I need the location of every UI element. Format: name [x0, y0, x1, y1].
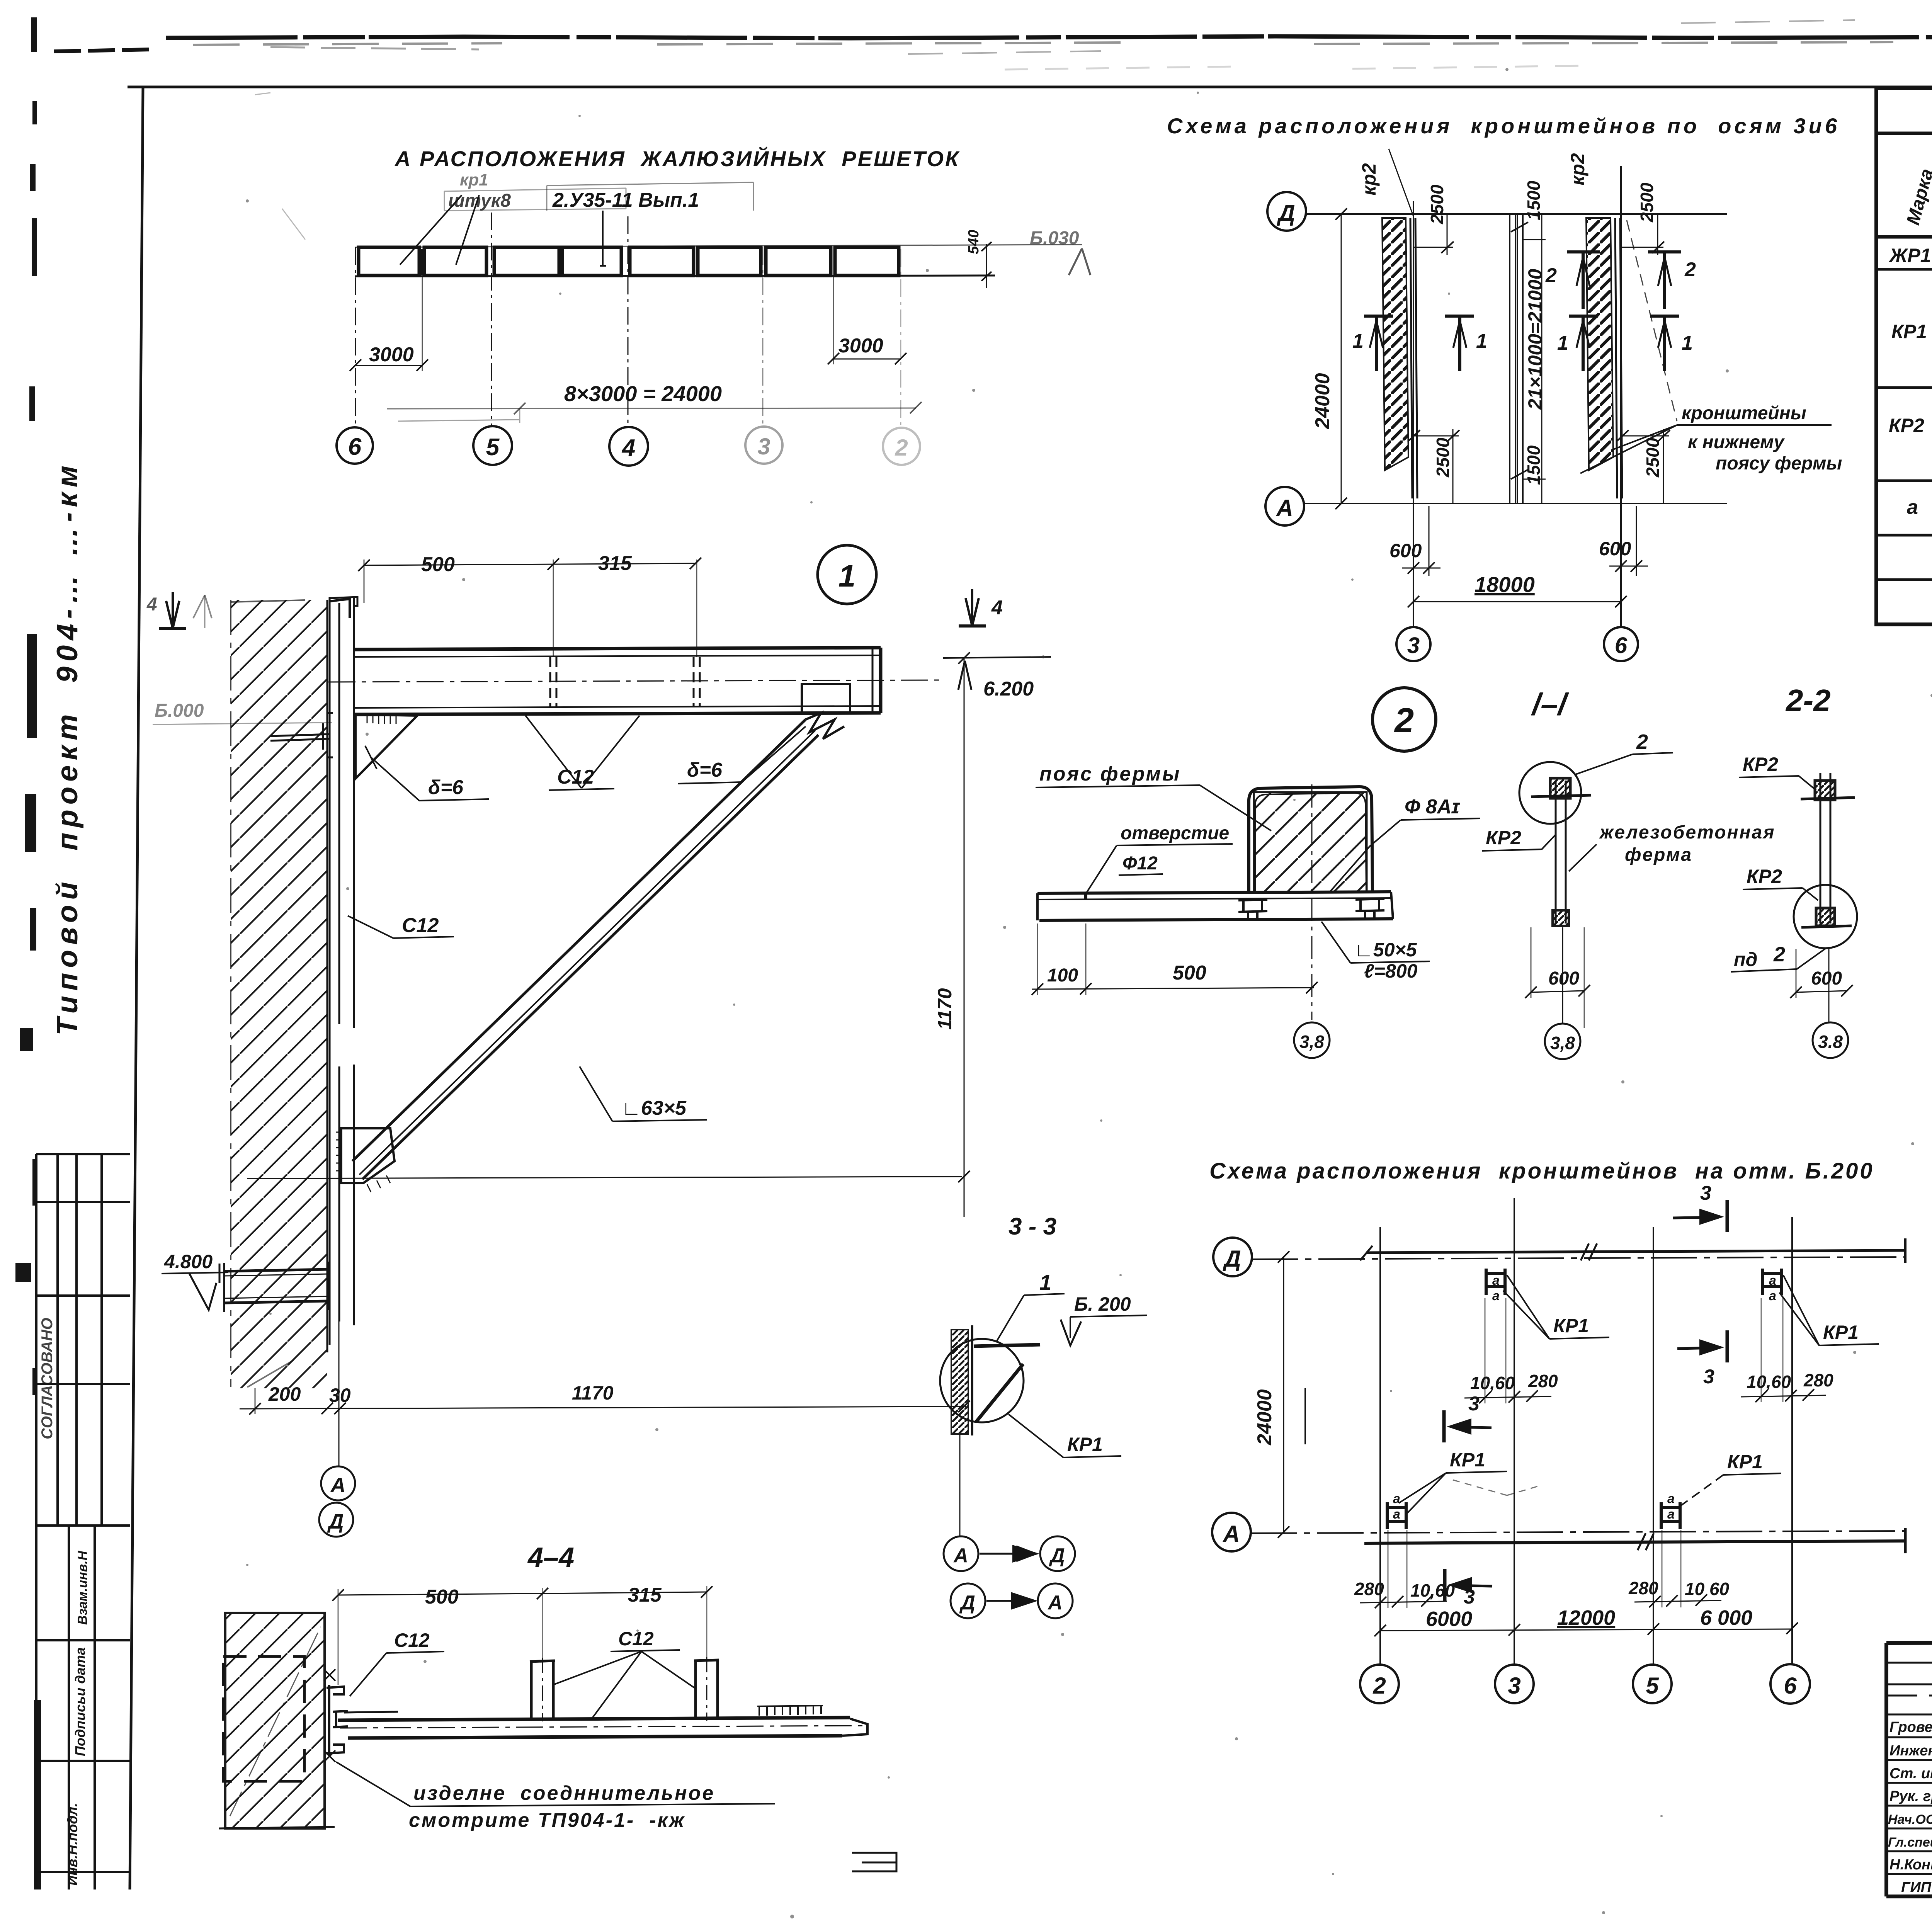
svg-text:600: 600	[1811, 968, 1842, 989]
row lines main body	[1876, 268, 1932, 271]
svg-text:Д: Д	[1276, 200, 1295, 226]
svg-text:а: а	[1667, 1507, 1675, 1522]
svg-text:а: а	[1393, 1492, 1400, 1506]
svg-text:КР2: КР2	[1889, 415, 1924, 436]
svg-text:315: 315	[598, 552, 632, 575]
stamp box 1 (soglasovano)	[36, 1154, 130, 1526]
svg-text:ℓ=800: ℓ=800	[1364, 960, 1418, 982]
hole on plate	[1084, 893, 1087, 899]
KR1 bracket symbol bottom axis5	[1661, 1502, 1680, 1529]
svg-text:3: 3	[1464, 1586, 1475, 1608]
svg-text:24000: 24000	[1253, 1389, 1276, 1446]
svg-text:КР1: КР1	[1553, 1315, 1589, 1337]
svg-text:2: 2	[1636, 730, 1648, 753]
4-4 stub channel 2	[694, 1660, 719, 1719]
svg-text:КР2: КР2	[1747, 866, 1782, 887]
svg-text:100: 100	[1047, 965, 1078, 986]
axis 3 vertical	[1514, 1198, 1515, 1664]
axis 6 dash-dot	[355, 247, 356, 427]
small leftover rect mark at frame	[852, 1853, 896, 1871]
svg-text:А: А	[1276, 495, 1293, 521]
svg-text:4.800: 4.800	[164, 1251, 213, 1272]
4-4 comb hatch right end	[757, 1706, 823, 1716]
header band top	[1876, 132, 1932, 135]
svg-text:Ф12: Ф12	[1122, 853, 1158, 874]
svg-text:3: 3	[757, 434, 770, 459]
arrow D to A	[986, 1600, 1034, 1602]
svg-text:2: 2	[1394, 701, 1414, 740]
axis circle 6	[1604, 627, 1638, 661]
middle partition double strip	[1510, 214, 1523, 503]
svg-text:Схема расположения кронштейно: Схема расположения кронштейнов по осям 3…	[1167, 114, 1840, 138]
svg-text:КР1: КР1	[1823, 1321, 1859, 1343]
top scan smear band	[166, 36, 1932, 38]
horizontal angle plate L50x5	[1037, 892, 1393, 920]
detail circle 1	[818, 545, 876, 604]
svg-text:3: 3	[1703, 1366, 1714, 1388]
4-4 ground line	[219, 1827, 335, 1828]
svg-text:10,60: 10,60	[1470, 1373, 1515, 1393]
svg-text:∟63×5: ∟63×5	[621, 1097, 687, 1119]
section mark 1 left pair	[1364, 316, 1474, 371]
3-3 wall strip hatched	[951, 1330, 968, 1434]
svg-text:600: 600	[1599, 538, 1631, 560]
svg-text:Ст. инж.: Ст. инж.	[1889, 1765, 1932, 1782]
axis circle A (detail1)	[321, 1466, 355, 1500]
svg-text:3: 3	[1508, 1673, 1520, 1699]
svg-text:А: А	[953, 1544, 968, 1567]
bottom beam line along A	[1364, 1541, 1905, 1543]
svg-text:3,8: 3,8	[1299, 1032, 1324, 1052]
axis circle 4	[609, 427, 648, 466]
section 1-1 ferma bar	[1556, 781, 1566, 923]
svg-text:2500: 2500	[1427, 184, 1447, 224]
svg-text:6: 6	[1784, 1673, 1797, 1699]
1-1 balloon circle top	[1519, 762, 1581, 824]
frame left rule	[130, 87, 143, 1889]
leader lines to first grille	[400, 195, 479, 265]
svg-text:2: 2	[1773, 943, 1785, 966]
4-4 weld crosses	[324, 1669, 335, 1762]
section mark 3 left-mid	[1452, 1427, 1492, 1428]
lintel I-beam at 4.800	[219, 1262, 328, 1312]
small angle detail at 6.000 level on wall	[270, 713, 333, 757]
wall channel C12 lower part	[339, 1065, 354, 1325]
svg-text:отверстие: отверстие	[1121, 823, 1229, 844]
header bottom	[1876, 235, 1932, 239]
svg-text:540: 540	[966, 230, 982, 254]
axis A line	[1251, 1531, 1905, 1533]
svg-text:1: 1	[1476, 330, 1487, 352]
axis circle 6	[337, 427, 373, 464]
3-3 top T bar	[974, 1345, 1040, 1346]
svg-text:2: 2	[1545, 264, 1557, 287]
svg-text:Инв.Н.подл.: Инв.Н.подл.	[65, 1803, 80, 1886]
svg-text:δ=6: δ=6	[687, 759, 723, 781]
svg-text:А: А	[330, 1474, 346, 1497]
center axis dash-dot	[1311, 784, 1313, 1020]
wall bottom hatch cut	[247, 1360, 294, 1387]
wall hatched strip	[231, 600, 327, 1388]
axis circle 6 (plan)	[1770, 1664, 1810, 1704]
nuts under plate	[1238, 899, 1384, 920]
axis circle A (plan)	[1212, 1513, 1251, 1551]
noise smudges	[1005, 66, 1584, 70]
svg-text:30: 30	[329, 1384, 351, 1406]
svg-text:1170: 1170	[934, 988, 956, 1030]
top connection vertical plate	[802, 684, 850, 713]
svg-text:КР1: КР1	[1891, 321, 1927, 342]
svg-text:С12: С12	[557, 766, 594, 788]
svg-text:изделне соедннительное: изделне соедннительное	[413, 1782, 715, 1804]
arrow A to D	[980, 1546, 1036, 1561]
svg-text:кр2: кр2	[1567, 153, 1588, 185]
axis D line	[1252, 1257, 1905, 1259]
4-4 connection bracket on wall face	[327, 1685, 348, 1756]
1-1 top KR2 square hatched	[1550, 778, 1570, 798]
svg-text:А: А	[1047, 1592, 1063, 1614]
svg-text:ЖР1: ЖР1	[1888, 245, 1931, 266]
svg-text:Д: Д	[1222, 1246, 1241, 1272]
svg-text:Н.Контр.: Н.Контр.	[1889, 1857, 1932, 1873]
axis circle 3 (faint)	[745, 427, 782, 464]
bottom dims 200 30 1170	[240, 1406, 966, 1409]
top-left edge smear	[54, 49, 151, 51]
svg-text:3: 3	[1468, 1393, 1480, 1415]
KR1 bracket symbol top axis6	[1763, 1269, 1782, 1295]
top small angle above beam at wall	[330, 599, 350, 618]
svg-text:Б.030: Б.030	[1030, 228, 1079, 248]
right brick wall strip hatched	[1586, 218, 1613, 470]
svg-text:Нач.ОСП.1: Нач.ОСП.1	[1888, 1812, 1932, 1827]
svg-text:6000: 6000	[1426, 1607, 1472, 1631]
4-4 leader from bracket to text	[336, 1762, 410, 1806]
svg-text:кр2: кр2	[1358, 163, 1380, 196]
4-4 horizontal beam plate	[338, 1712, 867, 1738]
svg-text:Инженер: Инженер	[1889, 1743, 1932, 1759]
svg-text:280: 280	[1803, 1370, 1833, 1390]
dim 1170 vertical right	[964, 658, 965, 1217]
signature rows	[1886, 1663, 1932, 1874]
svg-text:кр1: кр1	[460, 170, 488, 189]
axis 2 vertical	[1379, 1227, 1381, 1664]
dims 100 500	[1032, 988, 1314, 989]
svg-text:3.8: 3.8	[1818, 1032, 1843, 1052]
left KR2 strip double line	[1410, 218, 1412, 498]
4-4 wall block hatched	[225, 1613, 325, 1828]
svg-text:3: 3	[1700, 1182, 1711, 1204]
stamp box 2 (inv/podp)	[36, 1526, 130, 1889]
svg-text:а: а	[1769, 1273, 1776, 1288]
svg-text:2.У35-11 Вып.1: 2.У35-11 Вып.1	[552, 189, 699, 211]
diagonal brace L63x5	[352, 719, 818, 1179]
svg-text:18000: 18000	[1475, 572, 1535, 597]
svg-text:200: 200	[268, 1383, 301, 1405]
svg-text:1: 1	[1352, 330, 1364, 352]
thin top level line to elevation mark	[355, 245, 1082, 247]
svg-text:кронштейны: кронштейны	[1682, 403, 1806, 423]
big detail circle 2	[1372, 688, 1436, 751]
svg-text:500: 500	[1173, 962, 1206, 984]
beam axis dash-dot	[328, 680, 939, 682]
svg-text:6 000: 6 000	[1700, 1606, 1752, 1629]
grille rectangles row	[359, 247, 899, 276]
svg-text:Б. 200: Б. 200	[1074, 1293, 1131, 1315]
roles column texts	[1888, 1719, 1932, 1896]
svg-text:2: 2	[1372, 1673, 1386, 1699]
svg-text:∟50×5: ∟50×5	[1354, 939, 1417, 961]
axis 6 vertical	[1791, 1217, 1793, 1664]
svg-text:10,60: 10,60	[1747, 1372, 1791, 1392]
break marks on bottom beam	[1638, 1533, 1654, 1550]
svg-text:а: а	[1393, 1507, 1400, 1522]
svg-text:ГИП: ГИП	[1901, 1879, 1932, 1896]
base line under grilles	[355, 276, 995, 276]
svg-text:а: а	[1492, 1289, 1500, 1303]
axis circle 3	[1396, 627, 1430, 661]
leader from label to right strip bottom	[1580, 425, 1677, 473]
circle A right (row2)	[1038, 1583, 1073, 1618]
4-4 wall center dash-dot	[230, 1627, 321, 1816]
brace top connection zigzag	[806, 713, 844, 739]
axis circle 2 (very faint)	[883, 428, 920, 465]
svg-text:8×3000 = 24000: 8×3000 = 24000	[564, 381, 722, 406]
4-4 beam mid dash-dot	[340, 1726, 866, 1728]
svg-text:Схема расположения кронштейно: Схема расположения кронштейнов на отм. Б…	[1209, 1158, 1874, 1184]
leader to grille 3	[600, 211, 606, 266]
svg-text:пояс фермы: пояс фермы	[1039, 763, 1181, 785]
table outer border	[1876, 88, 1932, 624]
svg-text:КР1: КР1	[1067, 1434, 1103, 1455]
end bar bottom beam right	[1904, 1528, 1907, 1553]
axis line down to circles	[338, 1183, 340, 1466]
svg-text:6: 6	[348, 434, 362, 460]
3-3 diagonal brace	[976, 1364, 1023, 1422]
KR1 bracket symbol bottom axis2	[1387, 1502, 1406, 1529]
bottom dim line 6000 12000 6000	[1380, 1629, 1792, 1631]
3-3 channel line	[971, 1325, 973, 1435]
svg-text:а: а	[1907, 496, 1918, 519]
svg-text:2500: 2500	[1637, 182, 1657, 223]
gusset under beam at wall	[355, 714, 417, 779]
svg-text:КР2: КР2	[1486, 827, 1521, 849]
svg-text:Взам.инв.Н: Взам.инв.Н	[75, 1550, 90, 1625]
svg-text:6: 6	[1615, 633, 1628, 658]
svg-text:А РАСПОЛОЖЕНИЯ ЖАЛЮЗИЙНЫХ РЕ: А РАСПОЛОЖЕНИЯ ЖАЛЮЗИЙНЫХ РЕШЕТОК	[394, 146, 960, 171]
bottom gusset connection	[341, 1128, 395, 1183]
svg-text:δ=6: δ=6	[428, 776, 464, 799]
svg-text:Гроверил: Гроверил	[1889, 1719, 1932, 1735]
weld combs at bottom gusset	[336, 1132, 342, 1179]
svg-text:2500: 2500	[1643, 437, 1663, 478]
elevation 6.200 right	[943, 657, 1051, 658]
svg-text:5: 5	[486, 434, 500, 461]
axis circle 3 (plan)	[1495, 1665, 1534, 1703]
weld comb under beam left	[367, 716, 396, 724]
axis 6 vertical	[1620, 166, 1622, 628]
2-2 top tick bar	[1801, 798, 1855, 799]
end tick top beam right	[1904, 1238, 1906, 1263]
2-2 bottom hatched square	[1816, 908, 1835, 926]
section mark 1 right pair	[1569, 316, 1679, 371]
KR1 bracket symbol top axis3	[1486, 1269, 1505, 1295]
svg-text:/–/: /–/	[1531, 687, 1570, 721]
axis A horizontal	[1304, 503, 1727, 504]
wall channel C12 vertical on face	[330, 597, 357, 1345]
svg-text:КР1: КР1	[1727, 1451, 1763, 1473]
svg-text:Д: Д	[327, 1510, 344, 1533]
svg-text:4: 4	[146, 594, 157, 615]
svg-text:1: 1	[838, 559, 856, 593]
axis 5 dash-dot	[491, 213, 492, 426]
stub channel marks on beam (dashed)	[550, 657, 556, 707]
axis circle 5 (plan)	[1633, 1665, 1672, 1703]
svg-text:СОГЛАСОВАНО: СОГЛАСОВАНО	[39, 1318, 56, 1439]
svg-text:12000: 12000	[1557, 1606, 1615, 1629]
circle A left	[944, 1536, 978, 1571]
svg-text:1: 1	[1682, 332, 1693, 354]
axis 3 dash-dot (faint)	[762, 247, 764, 425]
left brick wall strip hatched	[1382, 218, 1408, 470]
frame top rule	[128, 86, 1932, 88]
svg-text:Рук. гр.: Рук. гр.	[1889, 1788, 1932, 1804]
svg-text:к нижнему: к нижнему	[1688, 432, 1785, 452]
1-1 bottom hatched square	[1553, 910, 1569, 926]
dim 24000 vertical (plan)	[1283, 1257, 1284, 1532]
axis circle 3,8 (detail2)	[1294, 1022, 1330, 1058]
section mark 4 right	[966, 589, 979, 626]
svg-text:поясу фермы: поясу фермы	[1716, 453, 1842, 474]
section mark 3 right-mid	[1677, 1348, 1719, 1349]
left paper edge black marks	[15, 17, 41, 1889]
svg-text:1170: 1170	[572, 1382, 614, 1404]
U-bolt F8AI around chord	[1249, 787, 1372, 892]
svg-text:3 - 3: 3 - 3	[1009, 1213, 1056, 1240]
svg-text:1: 1	[1039, 1270, 1051, 1294]
truss chord hatched square	[1254, 792, 1367, 892]
svg-text:2: 2	[1684, 259, 1696, 281]
svg-text:315: 315	[628, 1584, 662, 1606]
dim 24000 vertical	[1341, 214, 1342, 503]
svg-text:280: 280	[1354, 1579, 1384, 1599]
axis circle 2 (plan)	[1360, 1665, 1399, 1703]
svg-text:21×1000=21000: 21×1000=21000	[1524, 269, 1546, 410]
axis circle A	[1265, 487, 1304, 526]
svg-text:А: А	[1222, 1521, 1240, 1547]
axis circle 3,8 (1-1)	[1545, 1024, 1580, 1059]
4-4 stub channel 1	[530, 1661, 555, 1719]
svg-text:Типовой проект 904-… …-км: Типовой проект 904-… …-км	[51, 461, 84, 1036]
svg-text:железобетонная: железобетонная	[1599, 822, 1775, 843]
svg-text:3000: 3000	[369, 344, 414, 366]
top beam line along D	[1366, 1250, 1905, 1253]
3-3 balloon circle	[940, 1339, 1024, 1422]
wall top edge	[231, 600, 305, 602]
section 2-2 ferma bar	[1820, 773, 1830, 923]
axis 3 vertical	[1413, 201, 1414, 628]
4-4 dashed inner rectangle	[223, 1656, 304, 1781]
right KR2 strip double line	[1615, 218, 1617, 498]
svg-text:2: 2	[895, 435, 908, 461]
circle D right	[1040, 1536, 1075, 1571]
svg-text:24000: 24000	[1311, 373, 1334, 429]
main stamp outer	[1886, 1641, 1932, 1896]
svg-text:а: а	[1492, 1273, 1500, 1288]
svg-text:10 60: 10 60	[1685, 1579, 1730, 1599]
svg-text:3,8: 3,8	[1550, 1033, 1575, 1053]
svg-text:3: 3	[1407, 633, 1420, 658]
svg-text:Б.000: Б.000	[155, 701, 204, 721]
svg-text:КР1: КР1	[1450, 1449, 1485, 1471]
faint fold line artifacts	[908, 20, 1855, 54]
axis D horizontal	[1306, 213, 1727, 215]
svg-text:600: 600	[1548, 968, 1579, 989]
circle D left (row2)	[951, 1583, 985, 1618]
axis circle 5	[473, 426, 512, 465]
svg-text:Д: Д	[959, 1592, 975, 1614]
svg-text:2500: 2500	[1433, 437, 1453, 478]
svg-text:Гл.спецто: Гл.спецто	[1888, 1835, 1932, 1850]
witness lines bottom	[255, 1388, 256, 1414]
axis 2 (very faint)	[900, 249, 901, 425]
2-2 bottom bar	[1801, 926, 1852, 927]
2-2 balloon circle bottom	[1794, 885, 1857, 948]
svg-text:а: а	[1667, 1492, 1675, 1506]
svg-text:ферма: ферма	[1625, 845, 1692, 865]
svg-text:Подписьи дата: Подписьи дата	[72, 1647, 88, 1756]
section mark 3 bottom	[1453, 1585, 1492, 1586]
svg-text:смотрите ТП904-1- -кж: смотрите ТП904-1- -кж	[409, 1809, 685, 1832]
axis 4 dash-dot	[628, 216, 629, 427]
2-2 top hatched square	[1815, 781, 1835, 800]
svg-text:280: 280	[1628, 1578, 1658, 1598]
tick at left end of top beam	[1360, 1246, 1372, 1260]
line down to circles	[959, 1434, 961, 1536]
axis circle 3,8 (2-2)	[1813, 1022, 1848, 1058]
svg-text:2-2: 2-2	[1785, 683, 1831, 718]
svg-text:6.200: 6.200	[983, 678, 1034, 700]
svg-text:600: 600	[1389, 540, 1422, 561]
svg-text:Ф 8Аɪ: Ф 8Аɪ	[1405, 796, 1461, 818]
level line at brace bottom	[247, 1177, 962, 1179]
svg-text:а: а	[1769, 1289, 1776, 1303]
1-1 top tick bar	[1531, 795, 1591, 797]
svg-text:С12: С12	[402, 914, 439, 937]
svg-text:500: 500	[425, 1586, 459, 1608]
svg-text:4–4: 4–4	[527, 1542, 574, 1573]
svg-text:10,60: 10,60	[1410, 1580, 1455, 1600]
svg-text:пд: пд	[1734, 949, 1757, 970]
1500 dim line right of middle strip	[1523, 214, 1546, 503]
axis 5 vertical	[1653, 1227, 1654, 1664]
section mark 3 top	[1673, 1217, 1719, 1218]
dashed leader up to strip top	[1627, 220, 1677, 421]
axis circle D (plan)	[1213, 1238, 1252, 1276]
section mark 4 left	[166, 592, 179, 628]
svg-text:4: 4	[991, 597, 1003, 619]
svg-text:1: 1	[1557, 332, 1568, 354]
section mark 2 pair (upper right)	[1567, 252, 1681, 309]
svg-text:КР2: КР2	[1743, 753, 1778, 775]
axis circle D (detail1)	[319, 1503, 353, 1537]
horizontal beam 2xC12 top chord	[354, 648, 881, 714]
svg-text:С12: С12	[618, 1628, 654, 1650]
svg-text:Д: Д	[1049, 1544, 1065, 1567]
break marks on top beam	[1581, 1243, 1597, 1260]
svg-text:5: 5	[1646, 1673, 1659, 1699]
svg-text:С12: С12	[394, 1629, 430, 1651]
black notch between grille 1-2	[419, 249, 425, 275]
